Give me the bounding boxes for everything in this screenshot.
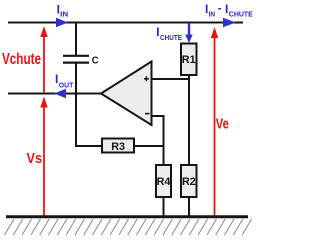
svg-text:IN: IN (209, 9, 216, 18)
resistor R4 (156, 165, 171, 197)
current arrow I_CHUTE (156, 23, 193, 43)
svg-text:OUT: OUT (59, 81, 74, 90)
svg-text:R2: R2 (182, 176, 196, 188)
svg-text:C: C (92, 56, 99, 67)
svg-text:Ve: Ve (216, 116, 229, 133)
voltage arrow Vs (27, 97, 48, 217)
svg-text:R1: R1 (182, 54, 196, 66)
wire R4 bottom lead (163, 197, 165, 217)
wire R3 right lead (134, 145, 164, 147)
current arrow I_IN - I_CHUTE (205, 1, 253, 27)
voltage arrow Ve (211, 27, 229, 216)
ground (5, 217, 252, 235)
svg-text:CHUTE: CHUTE (160, 33, 182, 42)
wire capacitor bottom lead down to R3 level then right (76, 63, 102, 146)
wire non-inverting input (152, 78, 190, 80)
wire R1 bottom lead down to R2 (188, 75, 190, 165)
wire inverting input down to R4 (152, 116, 164, 165)
voltage arrow Vchute (2, 26, 48, 93)
wire R2 bottom lead (188, 197, 190, 217)
svg-text:R3: R3 (111, 141, 125, 153)
wire top rail (8, 22, 243, 24)
svg-text:CHUTE: CHUTE (229, 9, 253, 18)
svg-text:R4: R4 (157, 176, 172, 188)
svg-text:-: - (218, 1, 222, 15)
capacitor C (63, 56, 99, 67)
resistor R2 (181, 165, 197, 197)
op-amp U1 (101, 62, 152, 126)
svg-text:IN: IN (60, 9, 68, 18)
wire output rail (8, 93, 103, 95)
resistor R1 (181, 44, 197, 76)
current arrow I_IN (56, 2, 68, 27)
wire capacitor top lead (75, 23, 77, 56)
svg-text:Vs: Vs (27, 150, 43, 167)
svg-text:Vchute: Vchute (2, 51, 41, 68)
resistor R3 (102, 139, 134, 154)
current arrow I_OUT (54, 72, 74, 98)
